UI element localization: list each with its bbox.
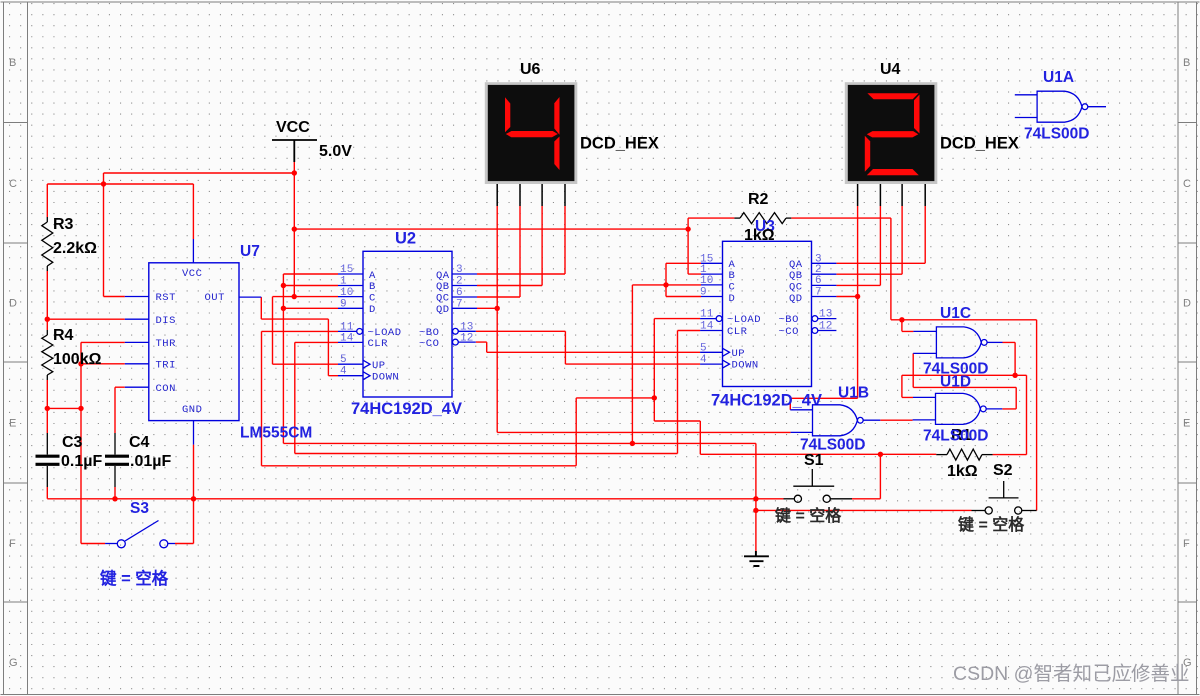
svg-text:U1A: U1A <box>1043 69 1074 86</box>
svg-text:D: D <box>9 298 17 310</box>
svg-text:S2: S2 <box>993 462 1013 479</box>
switch S3 (SPDT, key=space) <box>105 521 175 548</box>
wire net 555 OUT to U2.DOWN <box>261 297 338 376</box>
svg-text:E: E <box>1183 418 1190 430</box>
svg-text:CSDN @智者知己应修善业: CSDN @智者知己应修善业 <box>953 663 1189 685</box>
resistor R4 100kOhm <box>42 330 53 380</box>
wire net U2.QB to display U6 pin3 <box>477 206 542 286</box>
svg-text:3: 3 <box>456 264 463 276</box>
junction (294.3,173) <box>292 170 297 175</box>
wire net U2.QA to display U6 pin4 <box>477 206 565 274</box>
svg-text:4: 4 <box>700 354 707 366</box>
svg-text:键 = 空格: 键 = 空格 <box>99 568 169 588</box>
svg-text:5: 5 <box>700 342 707 354</box>
junction (103.5,184) <box>101 181 106 186</box>
svg-text:CLR: CLR <box>368 338 389 350</box>
svg-text:A: A <box>369 270 376 282</box>
junction (47.3,319.2) <box>45 317 50 322</box>
svg-text:1: 1 <box>340 276 347 288</box>
svg-text:DIS: DIS <box>156 315 176 327</box>
svg-text:9: 9 <box>340 299 347 311</box>
wire net ~LOAD chain U2/U3 to S1 right + R1 left <box>262 319 937 499</box>
svg-text:R4: R4 <box>53 327 74 344</box>
junction (294.3,229.1) <box>292 226 297 231</box>
wire net U2.QD to display U6 pin1 and U1B input <box>477 206 791 432</box>
junction (283.4,285.5) <box>281 283 286 288</box>
svg-text:C4: C4 <box>129 434 150 451</box>
resistor R3 2.2kOhm <box>42 217 53 271</box>
svg-text:10: 10 <box>340 287 354 299</box>
svg-text:RST: RST <box>156 292 176 304</box>
display U4 DCD_HEX showing 2 <box>845 61 1019 206</box>
svg-text:2.2kΩ: 2.2kΩ <box>53 240 97 257</box>
junction (666,284.9) <box>663 282 668 287</box>
svg-text:UP: UP <box>372 360 386 372</box>
svg-text:74HC192D_4V: 74HC192D_4V <box>711 392 822 410</box>
wire net CLR U2-U3 <box>295 331 700 454</box>
svg-text:.01µF: .01µF <box>130 453 171 470</box>
svg-text:13: 13 <box>460 321 474 333</box>
wire net VCC top rails to R3 / RST / U7-VCC pin <box>47 162 294 297</box>
svg-text:D: D <box>729 293 736 305</box>
svg-text:15: 15 <box>340 264 354 276</box>
wire net U2.QC to display U6 pin2 <box>477 206 520 297</box>
svg-text:12: 12 <box>819 321 833 333</box>
svg-text:74LS00D: 74LS00D <box>800 437 865 454</box>
svg-text:CLR: CLR <box>727 326 748 338</box>
junction (688.1,229.1) <box>685 226 690 231</box>
counter U2 74HC192D_4V <box>338 230 477 419</box>
wire net U1D output to U1C lower input <box>913 353 1016 409</box>
wire net U2.~CO to U3.UP <box>476 342 700 352</box>
switch S1 (pushbutton, key=space) <box>784 469 853 502</box>
svg-text:键 = 空格: 键 = 空格 <box>774 506 842 525</box>
junction (294.2,296.6) <box>292 294 297 299</box>
junction (654.3,397.9) <box>652 395 657 400</box>
logic gate U1A 74LS00D (spare) <box>1015 69 1106 143</box>
wire net R2 left to VCC rail <box>688 217 734 219</box>
svg-text:5: 5 <box>340 354 347 366</box>
svg-text:QD: QD <box>436 304 450 316</box>
svg-text:DCD_HEX: DCD_HEX <box>940 135 1019 153</box>
svg-text:C: C <box>1183 178 1191 190</box>
switch S2 (pushbutton, key=space) <box>972 481 1037 514</box>
wire net VCC main rail to U2.C / U2.UP / R2 / U3.B <box>273 173 702 364</box>
svg-text:DOWN: DOWN <box>732 360 759 372</box>
junction (115,498.8) <box>112 496 117 501</box>
junction (901.9,319.8) <box>899 317 904 322</box>
svg-text:S1: S1 <box>804 452 824 469</box>
counter U3 74HC192D_4V <box>700 241 836 409</box>
svg-text:QB: QB <box>789 270 803 282</box>
junction (47.3,408.4) <box>45 406 50 411</box>
wire net U3.QD to display U4 pin1 and U1B upper input <box>790 206 857 410</box>
svg-text:R2: R2 <box>748 191 769 208</box>
svg-text:C: C <box>369 292 376 304</box>
svg-text:11: 11 <box>700 309 714 321</box>
svg-text:5.0V: 5.0V <box>319 143 352 160</box>
svg-text:13: 13 <box>819 309 833 321</box>
wire net R2 right pull-up to U1C upper input and S2 <box>791 218 1036 510</box>
svg-text:UP: UP <box>732 348 746 360</box>
op-amp/timer U7 LM555CM <box>125 239 313 445</box>
display U6 DCD_HEX showing 4 <box>485 61 659 206</box>
svg-text:R3: R3 <box>53 216 74 233</box>
svg-text:U7: U7 <box>240 243 260 260</box>
wire net RST <box>104 296 125 298</box>
svg-text:6: 6 <box>456 287 463 299</box>
svg-text:14: 14 <box>700 321 714 333</box>
svg-text:B: B <box>9 57 16 69</box>
power VCC <box>272 119 352 162</box>
junction (81,363.8) <box>78 361 83 366</box>
svg-text:4: 4 <box>340 366 347 378</box>
svg-text:G: G <box>9 657 18 669</box>
svg-text:VCC: VCC <box>182 268 202 280</box>
svg-text:0.1µF: 0.1µF <box>61 453 102 470</box>
svg-text:QA: QA <box>436 270 450 282</box>
svg-text:1kΩ: 1kΩ <box>947 463 978 480</box>
wire net presets U2.A/B/D + U3.A/C/D to S1/ground <box>283 263 756 553</box>
svg-text:LM555CM: LM555CM <box>240 425 312 442</box>
svg-text:VCC: VCC <box>276 119 310 136</box>
logic gate U1C 74LS00D <box>913 305 1002 378</box>
junction (497.2,308.3) <box>495 306 500 311</box>
svg-text:U1B: U1B <box>838 385 869 402</box>
svg-text:DCD_HEX: DCD_HEX <box>580 135 659 153</box>
svg-text:D: D <box>1183 298 1191 310</box>
svg-text:U2: U2 <box>395 230 416 248</box>
svg-text:QC: QC <box>789 281 803 293</box>
svg-text:C3: C3 <box>62 434 83 451</box>
logic gate U1B 74LS00D <box>790 385 880 454</box>
svg-text:B: B <box>1183 57 1190 69</box>
svg-text:C: C <box>729 281 736 293</box>
svg-text:U1C: U1C <box>940 305 971 322</box>
wire net ground rail C3/C4/U7.GND/S3/S1 <box>47 445 971 544</box>
wire net DIS / R3-R4 junction <box>47 271 125 330</box>
svg-text:QC: QC <box>436 292 450 304</box>
svg-text:9: 9 <box>700 287 707 299</box>
svg-text:U4: U4 <box>880 61 901 78</box>
svg-text:键 = 空格: 键 = 空格 <box>957 515 1025 534</box>
junction (857.6,296.5) <box>855 294 860 299</box>
svg-text:~LOAD: ~LOAD <box>727 314 761 326</box>
svg-text:2: 2 <box>456 276 463 288</box>
wire net U3.QA to display U4 pin4 <box>836 206 925 263</box>
svg-text:7: 7 <box>456 299 463 311</box>
svg-text:11: 11 <box>340 321 354 333</box>
svg-text:74HC192D_4V: 74HC192D_4V <box>351 400 462 418</box>
svg-text:7: 7 <box>815 287 822 299</box>
junction (755.9,498.8) <box>753 496 758 501</box>
capacitor C3 0.1uF <box>36 433 103 487</box>
svg-text:B: B <box>729 270 736 282</box>
resistor R1 1kOhm <box>936 449 992 460</box>
svg-text:GND: GND <box>182 404 202 416</box>
svg-text:OUT: OUT <box>205 292 225 304</box>
junction (81,408.4) <box>78 406 83 411</box>
svg-text:TRI: TRI <box>156 359 176 371</box>
junction (1015.1,375.3) <box>1012 373 1017 378</box>
svg-text:D: D <box>369 304 376 316</box>
svg-text:12: 12 <box>460 333 474 345</box>
svg-text:QB: QB <box>436 281 450 293</box>
svg-text:14: 14 <box>340 333 354 345</box>
wire net U1B output to U1D lower input <box>880 419 912 421</box>
svg-text:F: F <box>9 538 16 550</box>
wire net U2.~BO to U3.DOWN <box>476 331 700 364</box>
wire net U3.QC to display U4 pin2 <box>836 206 880 285</box>
resistor R2 1kOhm <box>734 213 791 224</box>
wire net THR / TRI / timing node to C3 and S3 <box>47 342 125 543</box>
svg-text:QD: QD <box>789 293 803 305</box>
svg-text:E: E <box>9 418 16 430</box>
svg-text:~CO: ~CO <box>779 326 799 338</box>
svg-text:~CO: ~CO <box>419 338 439 350</box>
wire net U1C output to R1 right and U1D upper input <box>902 342 1027 454</box>
wire net U3.QB to display U4 pin3 <box>836 206 902 274</box>
svg-text:DOWN: DOWN <box>372 371 399 383</box>
svg-text:74LS00D: 74LS00D <box>1024 126 1089 143</box>
svg-text:S3: S3 <box>130 500 149 517</box>
svg-text:~BO: ~BO <box>779 314 799 326</box>
svg-text:74LS00D: 74LS00D <box>923 428 988 445</box>
junction (880.4,454.3) <box>878 452 883 457</box>
svg-text:THR: THR <box>156 338 177 350</box>
svg-text:C: C <box>9 178 17 190</box>
svg-text:6: 6 <box>815 275 822 287</box>
svg-text:U6: U6 <box>520 61 541 78</box>
svg-text:100kΩ: 100kΩ <box>53 351 102 368</box>
ground <box>744 551 769 566</box>
svg-text:B: B <box>369 281 376 293</box>
svg-text:F: F <box>1183 538 1190 550</box>
svg-text:10: 10 <box>700 275 714 287</box>
wire net CON to C4 <box>115 387 125 433</box>
capacitor C4 .01uF <box>105 433 171 487</box>
logic gate U1D 74LS00D <box>913 374 1003 445</box>
junction (193.5,498.8) <box>191 496 196 501</box>
junction (283.4,308.3) <box>281 306 286 311</box>
svg-text:U1D: U1D <box>940 374 971 391</box>
junction (755.9,510.4) <box>753 508 758 513</box>
junction (632.4,443.4) <box>630 441 635 446</box>
svg-text:CON: CON <box>156 383 176 395</box>
